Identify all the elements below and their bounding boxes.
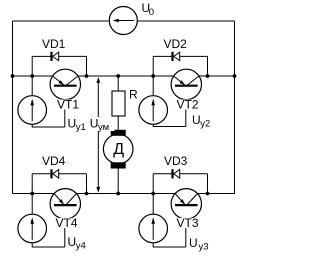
svg-text:VT2: VT2 [177, 98, 199, 112]
svg-text:VD3: VD3 [164, 154, 188, 168]
svg-text:у1: у1 [76, 122, 86, 133]
svg-text:0: 0 [149, 7, 154, 18]
svg-text:VT4: VT4 [56, 216, 78, 230]
svg-text:у3: у3 [199, 242, 209, 253]
svg-text:VD1: VD1 [42, 37, 66, 51]
svg-text:VD4: VD4 [42, 154, 66, 168]
svg-text:R: R [129, 88, 138, 102]
svg-text:Д: Д [113, 141, 124, 158]
svg-text:у2: у2 [200, 119, 210, 130]
svg-text:у4: у4 [76, 241, 86, 252]
svg-text:VD2: VD2 [164, 37, 188, 51]
svg-text:VT1: VT1 [57, 98, 79, 112]
svg-text:ум: ум [98, 122, 109, 133]
svg-text:U: U [189, 236, 198, 250]
svg-text:VT3: VT3 [177, 216, 199, 230]
